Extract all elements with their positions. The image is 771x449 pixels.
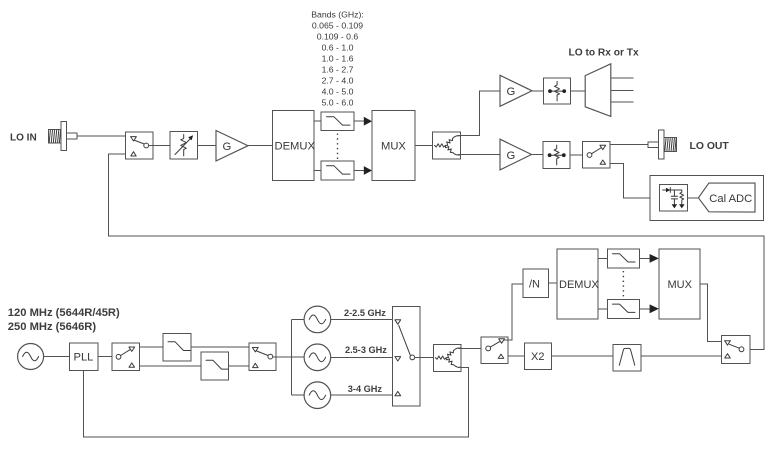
- wire S6 top to /N: [504, 284, 523, 340]
- power splitter PS2: [433, 345, 461, 372]
- switch S6: [481, 337, 508, 364]
- svg-text:DEMUX: DEMUX: [275, 141, 316, 153]
- MUX U2: [372, 111, 415, 181]
- wire PS2 upper to S6: [458, 347, 481, 349]
- wire DEMUX2 to FL6: [598, 308, 608, 310]
- wire AT1 to A1: [198, 145, 217, 147]
- arrow into MUX2 top: [650, 254, 659, 263]
- oscillator OSC0: [18, 344, 44, 370]
- wire PS1 lower to A3: [457, 154, 500, 156]
- switch S7: [721, 335, 749, 363]
- dotted line demux bank 1: [337, 134, 339, 160]
- wire FL7 to S7: [641, 355, 721, 357]
- oscillator OSC2: [304, 344, 331, 371]
- oscillator OSC1: [304, 306, 331, 333]
- wire DEMUX1 to FL1: [314, 120, 321, 122]
- wire S3 top to FL3: [140, 346, 164, 348]
- connector J2 (LO OUT): [648, 130, 677, 159]
- wires oscillators to S5: [331, 318, 393, 320]
- wire FL2 to MUX1: [354, 170, 365, 172]
- wire A3 to AT3: [532, 154, 544, 156]
- fanout connector (LO to Rx or Tx): [585, 64, 633, 117]
- wire PS1 upper to A2: [457, 91, 500, 136]
- wire X2 to FL7: [552, 355, 613, 357]
- wire PLL to S3: [98, 356, 112, 358]
- filter FL4 (lowpass): [201, 352, 229, 380]
- switch S4: [249, 343, 276, 370]
- amplifier A3: [500, 139, 532, 170]
- wire S3 bottom to FL4: [140, 365, 202, 367]
- wire A2 to AT2: [532, 90, 544, 92]
- feedback wire S1 to S7: [108, 154, 764, 349]
- svg-text:MUX: MUX: [381, 141, 406, 153]
- filter FL2 (lowpass): [321, 161, 354, 180]
- svg-text:G: G: [223, 141, 232, 153]
- filter FL1 (lowpass): [321, 112, 354, 131]
- wire FL6 to MUX2: [640, 308, 651, 310]
- power splitter PS1: [433, 132, 461, 159]
- svg-text:0.065 - 0.109: 0.065 - 0.109: [312, 21, 363, 31]
- svg-text:1.0 - 1.6: 1.0 - 1.6: [322, 54, 354, 64]
- dotted line demux bank 2: [622, 271, 624, 298]
- wire OSC0 to PLL: [44, 356, 70, 358]
- svg-text:LO IN: LO IN: [10, 133, 37, 144]
- wire MUX1 to PS1: [415, 145, 433, 147]
- wire FL3 to S4: [191, 346, 249, 348]
- wire S4 to oscillator bank: [273, 356, 305, 358]
- svg-text:DEMUX: DEMUX: [559, 279, 599, 291]
- wire S6 bottom to X2: [508, 355, 524, 357]
- svg-text:0.109 - 0.6: 0.109 - 0.6: [317, 32, 359, 42]
- svg-text:Bands (GHz):: Bands (GHz):: [311, 10, 364, 20]
- wire DEMUX2 to FL5: [598, 257, 608, 259]
- oscillator bank bus: [292, 319, 304, 395]
- svg-text:120 MHz (5644R/45R): 120 MHz (5644R/45R): [8, 307, 120, 319]
- arrow into MUX1 top: [364, 117, 372, 126]
- filter FL6 (lowpass): [607, 299, 639, 318]
- feedback wire PS2 to PLL: [84, 367, 469, 437]
- svg-text:4.0 - 5.0: 4.0 - 5.0: [322, 87, 354, 97]
- wire FL4 to S4: [229, 365, 250, 367]
- attenuator AT3: [543, 142, 570, 169]
- variable attenuator AT1: [170, 132, 198, 160]
- MUX U6: [659, 249, 700, 319]
- wire S2 to J2: [610, 144, 648, 146]
- wire S5 to PS2: [415, 356, 434, 358]
- divider /N: [523, 269, 549, 297]
- svg-text:0.6 - 1.0: 0.6 - 1.0: [322, 43, 354, 53]
- wire AT2 to fanout: [571, 90, 586, 92]
- svg-text:Cal ADC: Cal ADC: [709, 193, 752, 205]
- amplifier A2: [500, 75, 532, 106]
- wire S1 to AT1: [149, 145, 170, 147]
- PLL U4: [70, 343, 99, 370]
- DEMUX U1: [273, 111, 316, 181]
- wire DEMUX1 to FL2: [314, 170, 321, 172]
- wire DET1 to Cal ADC: [688, 197, 699, 199]
- cal outer box: [650, 175, 764, 220]
- filter FL5 (lowpass): [607, 249, 639, 268]
- svg-text:LO OUT: LO OUT: [690, 141, 730, 152]
- switch S5 (band select): [393, 307, 421, 407]
- bands list text: [311, 10, 364, 108]
- oscillator OSC3: [304, 382, 331, 409]
- arrow into MUX2 bottom: [650, 304, 659, 313]
- svg-text:/N: /N: [529, 279, 540, 291]
- svg-text:2.7 - 4.0: 2.7 - 4.0: [322, 76, 354, 86]
- svg-text:MUX: MUX: [668, 279, 693, 291]
- svg-text:1.6 - 2.7: 1.6 - 2.7: [322, 65, 354, 75]
- svg-text:X2: X2: [531, 351, 544, 363]
- switch S2: [583, 141, 611, 168]
- svg-text:G: G: [507, 86, 516, 98]
- connector J1 (LO IN): [48, 122, 77, 151]
- filter FL3 (lowpass): [163, 334, 191, 362]
- wire S2 bottom to detector: [610, 164, 659, 198]
- wire AT3 to S2: [570, 154, 582, 156]
- amplifier A1: [216, 131, 248, 162]
- doubler X2: [524, 343, 551, 369]
- wire FL5 to MUX2: [640, 257, 651, 259]
- svg-text:5.0 - 6.0: 5.0 - 6.0: [322, 98, 354, 108]
- Cal ADC tag U3: [698, 183, 755, 212]
- arrow into MUX1 bottom: [364, 166, 372, 175]
- wire MUX2 to S7: [700, 284, 722, 342]
- svg-text:LO to Rx or Tx: LO to Rx or Tx: [569, 47, 640, 58]
- svg-text:250 MHz (5646R): 250 MHz (5646R): [8, 321, 97, 333]
- detector DET1: [659, 185, 687, 212]
- wire /N to DEMUX2: [549, 282, 558, 284]
- attenuator AT2: [544, 78, 571, 104]
- DEMUX U5: [557, 249, 599, 319]
- svg-text:3-4 GHz: 3-4 GHz: [348, 384, 383, 394]
- switch S1: [126, 132, 154, 159]
- filter FL7 (bandpass): [613, 345, 641, 371]
- svg-text:G: G: [507, 150, 516, 162]
- svg-text:2.5-3 GHz: 2.5-3 GHz: [345, 345, 387, 355]
- wire A1 to DEMUX1: [248, 145, 273, 147]
- svg-text:PLL: PLL: [74, 352, 94, 364]
- wire J1 to S1: [77, 135, 126, 137]
- wire FL1 to MUX1: [354, 120, 365, 122]
- switch S3: [112, 343, 140, 370]
- svg-text:2-2.5 GHz: 2-2.5 GHz: [344, 308, 386, 318]
